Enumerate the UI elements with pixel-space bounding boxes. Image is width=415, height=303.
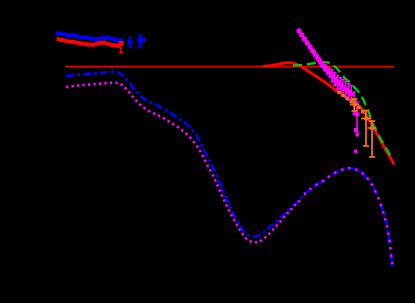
- magenta lower points: [352, 92, 360, 153]
- magenta dotted curve (merged over blue): [304, 168, 392, 267]
- red squares series: [57, 37, 121, 48]
- blue dash-dot curve: [66, 72, 392, 267]
- magenta star data chain: [299, 29, 353, 102]
- blue squares series: [56, 31, 123, 42]
- magenta dotted curve (lower branch): [66, 83, 300, 243]
- red horizontal line: [65, 66, 394, 68]
- green dashed curve: [293, 62, 393, 159]
- blue error bar points: [128, 35, 146, 48]
- orange data points with error bars: [337, 91, 376, 157]
- red thick curve: [263, 63, 394, 165]
- red point error bar: [119, 41, 124, 53]
